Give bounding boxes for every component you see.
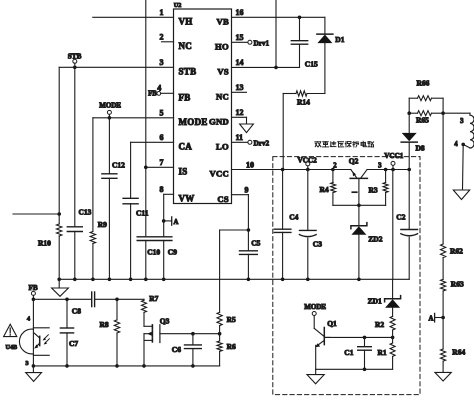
wire pin9 CS	[232, 194, 249, 196]
svg-text:C6: C6	[172, 345, 181, 354]
svg-text:R6: R6	[227, 342, 236, 351]
wire STB column down to R10	[57, 67, 61, 224]
wire C11 to rail	[130, 204, 132, 279]
minus polarity mark	[352, 191, 357, 193]
resistor R5	[217, 312, 236, 333]
resistor R8	[100, 299, 120, 333]
svg-text:6: 6	[160, 133, 164, 142]
U2 pin 10 name VCC	[209, 160, 254, 178]
wire pin2 NC stub	[162, 41, 174, 43]
wire FB row	[33, 298, 91, 302]
svg-text:CA: CA	[179, 142, 193, 152]
capacitor C13	[67, 208, 91, 232]
wire R62 to R63	[442, 258, 444, 280]
wire CS branch left	[220, 229, 249, 231]
node A (right) test point	[428, 313, 444, 322]
wire ZD2 anode to rail	[357, 235, 361, 281]
wire Q3 gate row	[160, 332, 222, 336]
capacitor C6	[172, 334, 202, 354]
wire R65 node to transformer pin3	[443, 113, 470, 115]
wire pin8 VW	[164, 193, 174, 195]
op-amp U2 (controller IC body)	[174, 2, 232, 204]
svg-text:16: 16	[236, 8, 244, 17]
svg-text:8: 8	[160, 185, 164, 194]
wire R14 corner down to VCC rail	[282, 94, 284, 170]
svg-text:3: 3	[160, 58, 164, 67]
resistor R6	[217, 334, 236, 352]
U2 pin 11 name LO	[216, 133, 243, 151]
ground symbol (right column)	[435, 372, 451, 381]
svg-text:VB: VB	[216, 17, 229, 27]
svg-text:3: 3	[25, 360, 28, 367]
wire transformer pin4 tap	[461, 143, 470, 148]
capacitor C4	[274, 170, 298, 282]
wire IS column to C10	[144, 167, 148, 281]
svg-text:Q1: Q1	[327, 319, 337, 328]
svg-text:1: 1	[160, 8, 164, 17]
U2 pin 5 name MODE	[160, 109, 208, 127]
capacitor C11	[123, 198, 149, 217]
U2 pin 12 name GND	[209, 108, 244, 126]
svg-text:5: 5	[160, 109, 164, 118]
wire opto emitter to ground	[32, 364, 36, 373]
wire Q1 collector row	[324, 336, 394, 340]
wire pin1 VH input	[93, 16, 174, 18]
wire opto collector column	[25, 299, 33, 367]
svg-text:Drv1: Drv1	[254, 40, 270, 48]
svg-text:C4: C4	[289, 213, 298, 222]
resistor R66 (top loop)	[409, 78, 443, 113]
wire pin13 NC stub	[232, 91, 247, 93]
U2 pin 16 name VB	[216, 8, 243, 26]
svg-text:R63: R63	[451, 280, 464, 289]
svg-text:C10: C10	[147, 247, 160, 256]
wire FB row right of C8	[95, 298, 144, 302]
svg-text:VCC1: VCC1	[384, 152, 404, 160]
wire R8 to bottom wire	[115, 333, 119, 368]
svg-text:C9: C9	[168, 247, 177, 256]
dashed protection box	[273, 157, 420, 395]
U2 pin 6 name CA	[160, 133, 193, 151]
svg-text:R66: R66	[417, 78, 430, 87]
U2 pin 8 name VW	[160, 185, 195, 203]
svg-text:MODE: MODE	[179, 117, 208, 127]
ground symbol (transformer pin4)	[453, 190, 469, 200]
svg-text:C7: C7	[69, 339, 78, 348]
svg-text:D8: D8	[416, 143, 425, 152]
node STB terminal	[68, 52, 82, 67]
wire Q2 base down	[357, 178, 361, 207]
wire Q1 emitter down	[315, 345, 317, 369]
wire D1 anode down to R14	[324, 43, 326, 93]
resistor R14	[283, 91, 325, 107]
svg-text:R8: R8	[100, 320, 109, 329]
node MODE terminal (left)	[99, 101, 121, 119]
wire C12 to rail	[108, 178, 110, 279]
capacitor C10	[137, 237, 160, 256]
wire pin5 MODE	[93, 117, 174, 119]
svg-text:MODE: MODE	[99, 101, 121, 109]
caption 双重过压保护电路 (double overvoltage protection)	[315, 141, 374, 147]
wire D8 cathode to VCC rail	[408, 142, 410, 169]
wire MODE terminal column to C12	[108, 118, 112, 281]
svg-text:Q3: Q3	[160, 317, 170, 326]
svg-text:R62: R62	[450, 246, 463, 255]
capacitor C3 (polarized)	[300, 170, 323, 282]
wire C1 to bottom	[363, 350, 367, 371]
svg-text:3: 3	[460, 118, 464, 125]
node Drv1 terminal (pin15 HO)	[232, 40, 270, 48]
svg-text:NC: NC	[179, 41, 193, 51]
svg-text:VCC: VCC	[209, 169, 229, 179]
svg-text:3: 3	[378, 163, 382, 170]
U2 pin 4 name FB and FB terminal	[148, 84, 190, 103]
svg-text:STB: STB	[179, 67, 197, 77]
svg-text:15: 15	[236, 33, 244, 42]
U2 pin 7 name IS	[160, 158, 188, 176]
wire C3 to rail	[307, 238, 309, 279]
svg-text:VS: VS	[217, 67, 229, 77]
svg-text:R14: R14	[297, 97, 310, 106]
U2 pin 9 name CS	[217, 186, 248, 204]
wire Q3 body-source to bottom wire	[142, 334, 146, 368]
capacitor C9	[156, 237, 178, 256]
ground symbol (Q1)	[307, 375, 324, 384]
wire R10 to ground rail	[57, 236, 61, 281]
capacitor C12	[102, 161, 125, 179]
svg-text:C5: C5	[251, 238, 260, 247]
resistor R10	[38, 224, 62, 248]
wire C5 to rail	[247, 254, 251, 281]
wire pin10 VCC rail	[232, 168, 351, 172]
U2 pin 13 name NC	[216, 83, 244, 101]
svg-text:C13: C13	[79, 208, 92, 217]
wire R64 to ground	[442, 361, 444, 372]
svg-text:R3: R3	[369, 185, 378, 194]
svg-text:MODE: MODE	[304, 303, 326, 311]
wire C9 to rail	[163, 241, 165, 280]
svg-text:FB: FB	[29, 284, 38, 292]
wire Q1 bottom row	[316, 368, 393, 370]
phototransistor inside U4B	[33, 328, 49, 356]
resistor R9	[90, 220, 107, 244]
svg-text:NC: NC	[216, 92, 229, 102]
wire R7 to Q3 drain	[143, 312, 145, 326]
ground symbol (rail left)	[52, 279, 69, 296]
wire C4 to rail	[282, 232, 284, 279]
svg-text:9: 9	[245, 186, 249, 195]
svg-text:R64: R64	[452, 348, 465, 357]
svg-text:C2: C2	[396, 212, 405, 221]
svg-text:2: 2	[160, 33, 164, 42]
capacitor C8 (series)	[72, 292, 95, 316]
wire bottom row	[33, 351, 219, 366]
light arrows into U4B	[43, 335, 50, 345]
svg-text:FB: FB	[148, 91, 157, 98]
svg-text:10: 10	[246, 160, 254, 169]
svg-text:C8: C8	[72, 307, 81, 316]
wire Q2 base line	[333, 204, 386, 206]
node VCC2 terminal	[298, 156, 318, 169]
svg-text:Drv2: Drv2	[254, 140, 270, 148]
wire Q2 collector rail (VCC1 side)	[367, 168, 411, 172]
svg-text:U4B: U4B	[6, 344, 18, 351]
wire C7 to bottom wire	[65, 333, 69, 368]
capacitor C15	[291, 17, 318, 68]
wire long vertical to IS (crosses pin1)	[145, 0, 147, 167]
capacitor C1	[344, 337, 371, 357]
capacitor C7	[60, 299, 78, 348]
svg-text:R7: R7	[149, 294, 158, 303]
svg-text:CS: CS	[217, 194, 229, 204]
svg-text:LO: LO	[216, 142, 229, 152]
svg-text:7: 7	[160, 158, 164, 167]
wire pin7 IS	[144, 166, 174, 170]
svg-text:12: 12	[236, 108, 244, 117]
node FB terminal (bottom left)	[29, 284, 38, 301]
zener diode ZD2	[351, 205, 383, 243]
wire pin16 VB to D1	[232, 15, 325, 19]
warning triangle marker	[4, 324, 17, 336]
wire MODE column down to R9	[92, 118, 94, 232]
wire left stub y=214	[13, 213, 59, 215]
svg-text:C12: C12	[112, 161, 125, 170]
wire C13 to rail	[74, 232, 76, 280]
U2 pin 1 name VH	[160, 8, 193, 26]
svg-text:VW: VW	[179, 194, 195, 204]
U2 pin 2 name NC	[160, 33, 193, 51]
svg-text:4: 4	[454, 141, 458, 148]
node Drv2 terminal (pin11 LO)	[232, 140, 270, 148]
capacitor C5	[240, 230, 261, 254]
wire pin12 GND stub	[232, 117, 247, 124]
wire R1 to bottom	[392, 356, 394, 369]
svg-text:A: A	[428, 315, 433, 322]
wire STB terminal column to C13	[73, 67, 77, 281]
resistor R64	[441, 348, 466, 362]
svg-text:R1: R1	[378, 348, 387, 357]
transistor Q2 (PNP series pass)	[333, 157, 382, 179]
resistor R65	[407, 111, 445, 125]
wire ZD1 column above rail (from VCC1 node)	[392, 170, 394, 280]
wire Q1 ground stub	[315, 369, 317, 374]
resistor R2	[375, 316, 395, 337]
svg-text:R10: R10	[38, 239, 51, 248]
wire C6 to bottom wire	[191, 349, 195, 368]
svg-text:A: A	[174, 219, 179, 226]
svg-text:ZD1: ZD1	[368, 296, 382, 305]
svg-text:14: 14	[236, 58, 244, 67]
svg-text:ZD2: ZD2	[368, 235, 382, 244]
wire ZD1 anode to R2	[392, 308, 394, 317]
svg-text:IS: IS	[179, 167, 188, 177]
resistor R1	[378, 337, 396, 356]
U2 pin 15 name HO	[215, 33, 243, 51]
svg-text:VH: VH	[179, 17, 193, 27]
svg-text:Q2: Q2	[349, 157, 359, 166]
svg-text:2: 2	[333, 163, 337, 170]
svg-text:11: 11	[236, 133, 244, 142]
inductor T1 winding (pins 3-4)	[454, 115, 474, 148]
diode D1	[317, 17, 345, 44]
wire pin14 VS	[232, 66, 277, 68]
wire right column top	[442, 113, 444, 244]
svg-text:GND: GND	[209, 117, 229, 127]
svg-text:C3: C3	[313, 240, 322, 249]
svg-text:C15: C15	[305, 60, 318, 69]
svg-text:R5: R5	[227, 315, 236, 324]
svg-text:D1: D1	[335, 35, 344, 44]
svg-text:C11: C11	[136, 208, 149, 217]
wire long vertical to VS (from top edge)	[274, 0, 278, 69]
svg-text:R65: R65	[416, 116, 429, 125]
wire VW column to node A	[162, 194, 166, 281]
svg-text:FB: FB	[179, 93, 191, 103]
svg-text:R9: R9	[98, 220, 107, 229]
resistor R3	[369, 170, 389, 206]
svg-text:C1: C1	[344, 348, 353, 357]
wire C2 to rail corner	[408, 237, 410, 279]
wire pin6 CA	[131, 141, 174, 143]
wire CA column to C11	[129, 142, 133, 281]
resistor R7	[142, 294, 159, 312]
node MODE terminal (bottom)	[304, 303, 326, 329]
wire C15 bottom to VS node	[276, 44, 300, 67]
svg-text:R4: R4	[320, 185, 329, 194]
wire R63 to node A	[442, 291, 444, 349]
wire pin4 to ground	[462, 144, 465, 190]
svg-text:HO: HO	[215, 42, 229, 52]
capacitor C2 (polarized)	[396, 170, 417, 236]
svg-text:U2: U2	[174, 2, 182, 9]
resistor R63	[441, 279, 464, 291]
node A (left) test point	[164, 217, 179, 226]
wire ground rail	[59, 278, 409, 280]
U2 pin 3 name STB	[160, 58, 197, 76]
ground symbol (opto)	[26, 373, 42, 382]
wire pin3 STB	[59, 66, 173, 70]
wire R9 to rail	[91, 244, 95, 282]
svg-text:13: 13	[236, 83, 244, 92]
wire CS corner down	[247, 195, 251, 232]
ground symbol (pin12)	[240, 124, 254, 133]
zener diode ZD1	[368, 279, 401, 308]
diode D8	[401, 113, 425, 152]
transistor Q3 (MOSFET)	[144, 317, 170, 343]
resistor R4	[320, 170, 336, 206]
svg-text:R2: R2	[375, 320, 384, 329]
optocoupler U4B body	[6, 329, 34, 354]
wire C10 to rail	[145, 241, 147, 280]
wire CS branch down through rail to R5	[219, 230, 221, 312]
U2 pin 14 name VS	[217, 58, 243, 76]
node VCC1 terminal	[384, 152, 404, 170]
resistor R62	[441, 244, 464, 258]
transistor Q1 (NPN)	[314, 319, 337, 347]
